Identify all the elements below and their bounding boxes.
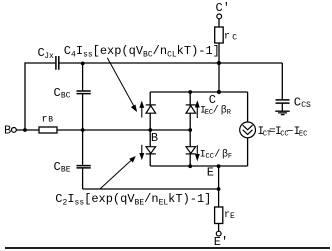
annotation arrow top formula to upper-left diode: [107, 58, 136, 111]
junction dot E row / emitter column: [217, 164, 221, 168]
junction dot top wire / rC: [217, 61, 221, 65]
svg-text:CS: CS: [301, 101, 311, 110]
wire E row to rE: [218, 166, 220, 207]
svg-text:r: r: [42, 115, 48, 126]
diode BE main (lower-right): [186, 147, 196, 154]
svg-text:E: E: [230, 212, 235, 221]
junction dot B row / box left: [148, 128, 152, 132]
capacitor CBE plates: [77, 166, 91, 168]
junction dot top wire / CBC branch: [81, 62, 85, 66]
terminal C' circle: [217, 14, 222, 19]
svg-text:C': C': [216, 1, 230, 15]
wire current source top lead: [247, 92, 249, 122]
label top formula C4Iss[exp(qVBC/nCLkT)-1]: [64, 44, 220, 60]
label bottom formula C2Iss[exp(qVBE/nELkT)-1]: [55, 192, 211, 208]
wire rB to box left (base node): [57, 129, 190, 131]
svg-text:B: B: [48, 116, 53, 125]
svg-text:/: /: [213, 105, 219, 117]
wire C' to rC: [218, 19, 220, 27]
svg-text:r: r: [224, 32, 230, 43]
wire rE to E': [218, 224, 220, 232]
wire top main (CJX cap to CCS corner, collector node): [60, 62, 283, 64]
figure bottom border line: [5, 247, 330, 249]
svg-text:Jx: Jx: [44, 52, 54, 61]
svg-text:F: F: [228, 153, 232, 161]
wire CCS vertical: [281, 63, 283, 111]
svg-text:C: C: [232, 33, 237, 42]
wire cap branch upper (top wire to CBC): [82, 63, 84, 90]
svg-text:BE: BE: [61, 166, 71, 175]
wire rC to C row: [218, 43, 220, 92]
svg-text:C: C: [54, 160, 61, 174]
capacitor CJX plates: [56, 56, 59, 70]
resistor rB: [39, 127, 57, 133]
current source ICT: [240, 122, 256, 138]
terminal E' circle: [216, 231, 221, 236]
svg-text:C: C: [54, 86, 61, 100]
wire top left segment (B' to CJX cap): [25, 62, 55, 64]
junction dot B row / cap branch: [81, 128, 85, 132]
current arrow down ICC/bF (lower-right diode): [196, 145, 199, 159]
svg-text:C: C: [294, 95, 301, 109]
wire box left column: [149, 92, 151, 166]
resistor rC: [215, 27, 224, 43]
current arrow down (lower-left diode): [140, 145, 143, 159]
diode BC leakage (upper-left): [146, 105, 156, 113]
wire y189 (CBE to internal emitter): [83, 188, 219, 190]
diode BE leakage (lower-left): [146, 147, 156, 154]
wire B terminal to rB: [16, 129, 39, 131]
svg-text:BC: BC: [61, 92, 71, 101]
annotation arrow bottom formula to lower-left diode: [100, 157, 135, 189]
svg-text:B: B: [151, 131, 158, 145]
terminal B circle: [12, 127, 17, 132]
current arrow up IEC/bR (upper-right diode): [196, 102, 199, 118]
wire left vertical (B terminal to top wire): [24, 62, 26, 130]
diode BC main (upper-right): [186, 105, 196, 113]
capacitor CBC plates: [77, 91, 91, 94]
junction dot B terminal node: [23, 128, 27, 132]
svg-text:/: /: [214, 148, 220, 160]
wire cap branch middle (CBC to B row to CBE): [82, 94, 84, 165]
wire current source bottom lead: [247, 138, 249, 166]
junction dot C row / rC: [217, 90, 221, 94]
svg-text:B: B: [4, 124, 11, 138]
resistor rE: [215, 207, 223, 224]
capacitor CCS plates: [276, 100, 290, 103]
junction dot E row / box right: [188, 164, 192, 168]
wire C row (internal collector): [150, 91, 247, 93]
junction dot y189 wire / emitter column: [217, 187, 221, 191]
junction dot B row / box right: [188, 128, 192, 132]
svg-text:EC: EC: [299, 131, 307, 139]
svg-text:E: E: [207, 166, 214, 180]
svg-text:−: −: [287, 126, 294, 138]
wire box right column: [189, 92, 191, 166]
svg-text:CC: CC: [206, 153, 214, 161]
junction dot C row / box right: [188, 90, 192, 94]
svg-text:E': E': [214, 235, 228, 249]
wire cap branch lower (CBE to emitter wire): [82, 169, 84, 189]
ground below CCS: [275, 111, 289, 114]
current arrow up (upper-left diode): [140, 102, 143, 117]
wire E row (internal emitter): [150, 165, 247, 167]
